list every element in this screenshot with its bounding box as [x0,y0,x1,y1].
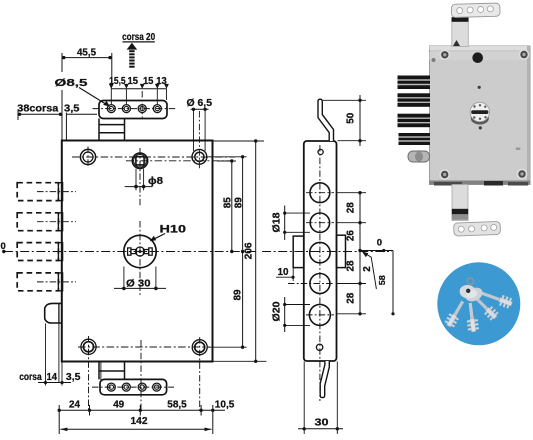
photo screws [439,49,529,180]
dimension corsa 14 extension lines [45,324,47,386]
dimension 30 [303,362,305,435]
svg-text:2: 2 [362,266,373,272]
svg-text:58,5: 58,5 [167,400,187,411]
svg-text:142: 142 [131,416,148,427]
key 2 middle [465,302,479,332]
dimension diameter 18 [285,212,310,214]
dimension diameter 8 [135,169,137,191]
dimension diameter 20 [285,304,310,306]
corsa 20 stroke arrow [127,43,138,50]
svg-text:10: 10 [278,267,289,278]
dimension 142 [60,428,211,430]
side view bottom bent tab [320,361,329,398]
dimension diameter 6,5 [191,108,209,110]
top-left fixing hole [80,149,95,164]
svg-text:corsa 20: corsa 20 [122,32,155,43]
node 0 side reference [360,250,393,252]
dimension 50 [323,99,366,101]
deadbolt 4 dashed [17,273,58,291]
bottom plate hole 4 [153,383,161,391]
svg-text:Ø 30: Ø 30 [126,277,151,289]
svg-text:3,5: 3,5 [64,104,80,115]
side hole 3 cylinder [310,242,330,262]
side view bottom screw hole [316,344,322,350]
leader diameter 8,5 [79,88,107,105]
dimension 10 [276,276,295,278]
bottom plate hole 3 [138,383,146,391]
dimension 3,5 top [66,113,97,115]
svg-text:26: 26 [346,230,357,241]
photo bolt pins [398,76,431,146]
bottom tick row 24 49 58,5 10,5 [59,409,225,411]
svg-text:0: 0 [1,241,6,252]
dimension diameter 30 [123,267,125,289]
photo small holes [478,86,481,89]
double-bitted key profile [128,247,153,256]
right extension lines [213,140,265,142]
svg-text:0: 0 [377,238,382,249]
centerline vertical bottom-left hole [88,336,90,411]
top plate bend step [99,119,125,141]
centerline vertical spindle [139,148,141,207]
bottom plate hole 2 [122,383,130,391]
svg-text:Ø18: Ø18 [272,212,283,232]
svg-text:49: 49 [113,400,124,411]
deadbolt 1 face tab [58,183,62,201]
deadbolt 2 dashed [17,213,58,231]
dimension 89 89 [242,157,244,347]
svg-text:Ø8,5: Ø8,5 [55,77,88,89]
svg-text:58: 58 [377,275,387,285]
key bows cluster [463,285,485,304]
dimension row 15,5 15 15 13 [111,88,166,90]
bottom-right fixing hole [192,340,207,355]
top plate hole 1 [107,105,115,113]
leader 2 [364,253,376,289]
centerline deadbolt 4 [37,281,76,283]
side centerlines horizontal holes [306,192,334,194]
svg-text:Ø 6,5: Ø 6,5 [187,97,213,109]
top plate hole 2 [122,105,130,113]
centerline deadbolt 1 [37,191,76,193]
key 1 left [444,299,468,329]
photo body plate [430,46,531,185]
side centerline vertical [319,145,321,401]
centerline vertical bottom plate [140,340,142,412]
svg-text:13: 13 [156,76,167,87]
key 4 right [479,288,514,310]
square spindle hole [132,153,147,168]
keys photo [437,262,520,345]
centerline deadbolt 2 [37,221,76,223]
centerline vertical keyhole [139,221,141,297]
side hole 5 [309,304,330,325]
centerline vertical plate hole3 [141,91,143,118]
latch bolt [45,303,62,323]
svg-text:ϕ8: ϕ8 [148,175,163,187]
side view faceplate [304,141,337,361]
svg-text:89: 89 [233,197,244,208]
bottom plate bend step [99,362,125,379]
side hole 1 [310,183,330,203]
blue disc [437,262,520,345]
photo latch bolt [408,151,430,162]
side view top bent tab [318,99,334,141]
top plate hole 4 [153,105,161,113]
photo top strip [452,18,469,47]
svg-text:15,5: 15,5 [109,76,126,87]
svg-text:45,5: 45,5 [77,47,96,58]
right extension lines side view [337,192,367,194]
centerline bottom plate holes [92,386,174,388]
svg-text:corsa: corsa [19,372,42,383]
dimension 45,5 [62,57,112,59]
photo cylinder [471,113,489,125]
svg-text:10,5: 10,5 [215,400,235,411]
svg-text:38corsa: 38corsa [17,104,58,115]
product photo lock [398,3,531,236]
svg-text:30: 30 [315,418,330,429]
dimension 206 [255,141,257,361]
lock body front view [62,141,213,362]
svg-text:15: 15 [128,76,139,87]
svg-text:H10: H10 [160,224,187,236]
svg-text:89: 89 [233,289,244,300]
dimension chain 28 26 28 28 [359,193,361,314]
side view top screw hole [318,149,323,154]
centerline bottom holes [78,346,210,348]
photo bottom strip [452,185,468,221]
svg-text:Ø20: Ø20 [272,301,283,321]
deadbolt 4 face tab [58,273,62,291]
side view right tab [337,235,346,267]
centerline vertical top-left hole [87,147,89,169]
key ring loop [467,278,473,284]
photo top hole [472,52,483,63]
dimension 38corsa [18,113,62,115]
svg-text:206: 206 [244,242,255,259]
side hole 2 [310,213,329,232]
centerline top plate holes [93,108,177,110]
key 3 [473,295,500,322]
node 0 zero reference line [4,251,258,253]
top mounting plate [99,101,167,119]
photo bottom bracket [454,221,501,236]
svg-text:15: 15 [143,76,154,87]
svg-text:28: 28 [346,292,357,303]
dimension 85 [231,161,233,252]
deadbolt 3 face tab [58,243,62,261]
svg-text:28: 28 [346,202,357,213]
svg-text:14: 14 [47,372,58,383]
side view left tab [293,236,304,268]
dimension 58 [392,251,394,314]
deadbolt 2 face tab [58,213,62,231]
svg-text:3,5: 3,5 [66,372,81,383]
photo top bracket [451,3,500,17]
top-right fixing hole [192,149,207,164]
svg-text:24: 24 [69,400,80,411]
centerline vertical bottom-right hole [199,337,201,411]
bottom-left fixing hole [81,339,96,354]
svg-text:28: 28 [346,260,357,271]
latch faceplate line [58,303,60,323]
top plate hole 3 [138,105,146,113]
keyhole cylinder circle [124,235,156,267]
svg-text:50: 50 [346,112,357,123]
centerline spindle hole [126,160,233,162]
side hole 4 [310,274,330,294]
bottom plate hole 1 [107,383,115,391]
deadbolt 1 dashed [17,183,58,201]
leader H10 [155,234,166,239]
centerline top holes [72,156,235,158]
bottom mounting plate [100,379,167,394]
svg-text:85: 85 [223,197,234,208]
deadbolt 3 dashed [17,243,58,261]
